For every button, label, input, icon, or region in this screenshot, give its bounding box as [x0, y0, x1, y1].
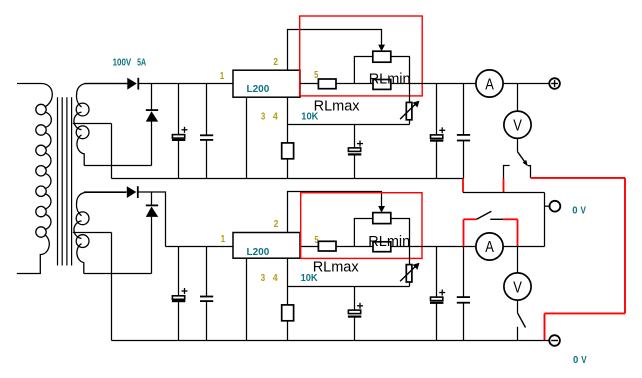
wire S2 center tap — [73, 232, 112, 234]
RLmax pot arrow — [400, 101, 419, 120]
wire RLmin left leg — [354, 57, 372, 84]
transformer T1 secondary winding S1 — [74, 84, 127, 166]
wire pin4 node to RLmax — [288, 124, 410, 126]
wire RLmin to output node — [391, 83, 410, 85]
svg-text:2: 2 — [274, 219, 279, 230]
potentiometer RLmin2 fixed element — [373, 242, 391, 252]
switch SW1 right contact — [528, 166, 531, 178]
wire ammeter 2 to corner — [503, 246, 544, 248]
svg-text:100V: 100V — [113, 57, 132, 68]
capacitor C7 wires — [206, 247, 208, 341]
svg-text:4: 4 — [273, 112, 278, 123]
potentiometer RLmax element — [406, 102, 412, 119]
wire U2 pin 3 to ground rail — [246, 258, 248, 340]
wire 0V terminal tick — [545, 205, 550, 207]
capacitor C9 — [430, 290, 445, 303]
resistor R2 (pin4 to ground) — [282, 143, 294, 159]
label U2 L200 — [247, 247, 270, 258]
wire red right vertical — [624, 178, 626, 314]
wire mid rail down to bottom output — [544, 193, 546, 247]
switch SW3 bottom contact — [517, 327, 519, 341]
svg-text:5A: 5A — [137, 57, 146, 68]
svg-text:1: 1 — [221, 234, 226, 245]
svg-text:V: V — [581, 355, 587, 366]
svg-text:RLmax: RLmax — [313, 260, 360, 276]
wire S1 bottom to D2 — [84, 121, 151, 165]
svg-text:RLmin: RLmin — [369, 71, 411, 87]
pin 2 label U2 — [274, 219, 279, 230]
wire U2 pin 5 to R3 — [300, 246, 318, 248]
switch SW1 pole wire — [517, 138, 519, 152]
pin 1 label U2 — [221, 234, 226, 245]
svg-text:3: 3 — [261, 273, 266, 284]
voltmeter V1 — [504, 111, 531, 138]
capacitor C3 wires — [354, 125, 356, 179]
svg-text:L200: L200 — [247, 247, 270, 258]
wire U1 pin 3 to ground rail — [246, 97, 248, 178]
svg-text:A: A — [485, 239, 494, 256]
label RLmin — [369, 71, 411, 87]
potentiometer RLmin2 upper element — [373, 213, 391, 224]
wire R2 to ground rail — [287, 159, 289, 179]
diode D4 — [146, 192, 158, 217]
svg-text:10K: 10K — [301, 273, 319, 284]
svg-text:V: V — [513, 279, 522, 296]
RLmin2 pot wiper arrow — [378, 206, 385, 213]
pin 3 label U1 — [261, 112, 266, 123]
label RLmin2 — [368, 234, 410, 250]
transformer T1 secondary winding S2 — [74, 192, 126, 273]
label 0 V top — [572, 205, 586, 216]
ammeter A1 — [476, 70, 503, 97]
label RLmax value 10K — [301, 112, 319, 123]
capacitor C6 wires — [178, 247, 180, 341]
capacitor C5 — [457, 135, 470, 141]
svg-text:A: A — [485, 76, 494, 93]
pin 1 label U1 — [220, 71, 225, 82]
wire U2 pin 4 down — [287, 258, 289, 305]
pin 4 label U1 — [273, 112, 278, 123]
wire U1 pin 2 to RLmin wiper — [288, 30, 382, 71]
capacitor C9 wires — [436, 247, 438, 341]
wire bottom input rail — [166, 246, 234, 248]
wire output node 2 to RLmax2 pot — [409, 247, 411, 265]
op-amp U2 L200 regulator — [233, 233, 300, 259]
wire red SW1 contact to mid rail — [503, 179, 505, 193]
wire red ammeter bypass right — [517, 219, 519, 246]
svg-text:1: 1 — [220, 71, 225, 82]
switch SW3 arm — [518, 313, 526, 328]
capacitor C6 — [172, 288, 188, 301]
resistor R1 (pin5 series) — [318, 79, 336, 89]
switch SW2 contact — [490, 218, 503, 220]
wire top rail D1 to L200 pin 1 — [138, 83, 233, 85]
wire RLmin2 right leg — [391, 219, 410, 247]
svg-text:3: 3 — [261, 112, 266, 123]
capacitor C2 — [200, 135, 213, 140]
wire mid rail (0V) — [463, 192, 545, 194]
wire bottom rail segment S2 to D3 — [84, 191, 127, 193]
wire RLmin2 to output node — [391, 246, 410, 248]
svg-text:4: 4 — [273, 273, 278, 284]
wire RLmin2 left leg — [354, 219, 372, 247]
wire V2 branch — [517, 247, 519, 274]
switch SW1 arm — [518, 152, 528, 167]
pin 2 label U1 — [273, 57, 278, 68]
capacitor C8 — [348, 303, 363, 317]
wire S1 center tap — [73, 123, 112, 125]
wire U2 pin 2 to RLmin2 wiper — [288, 192, 382, 233]
wire R3 to RLmin2 — [336, 246, 373, 248]
capacitor C1 wires — [178, 84, 180, 179]
label RLmax2 — [313, 260, 360, 276]
terminal 0V top — [550, 201, 561, 212]
wire red bottom horizontal — [545, 312, 626, 314]
RLmin pot wiper arrow — [378, 45, 385, 52]
label U1 L200 — [247, 84, 270, 95]
wire red bypass top left — [464, 218, 477, 220]
switch SW2 arm — [477, 211, 492, 219]
pin 5 label U2 — [314, 235, 319, 246]
capacitor C10 wires — [463, 247, 465, 341]
wire top ground rail — [112, 178, 464, 180]
terminal minus output — [549, 335, 560, 346]
wire red ammeter bypass left — [463, 219, 465, 246]
wire RLmin right leg — [391, 57, 410, 84]
capacitor C2 wires — [206, 84, 208, 179]
wire pin4 node 2 to RLmax2 — [288, 286, 410, 288]
capacitor C4 — [430, 127, 445, 140]
diode D3 — [127, 186, 138, 198]
wire S2 bottom to D4 — [84, 217, 152, 274]
potentiometer RLmin fixed element — [373, 80, 391, 90]
label 0 V bottom — [573, 355, 587, 366]
capacitor C1 — [172, 127, 188, 140]
wire R1 to RLmin — [336, 83, 373, 85]
wire red bypass top right — [503, 218, 517, 220]
wire red down to minus terminal — [544, 313, 546, 340]
capacitor C7 — [200, 297, 213, 302]
label RLmax2 value 10K — [301, 273, 319, 284]
voltmeter V2 — [504, 273, 531, 300]
highlight box around RLmin2 (red) — [301, 193, 422, 259]
capacitor C3 — [348, 141, 363, 155]
potentiometer RLmin upper element — [373, 51, 391, 62]
transformer T1 primary winding — [17, 84, 53, 274]
capacitor C5 wires — [463, 84, 465, 179]
resistor R4 (pin4 to ground) — [282, 305, 294, 321]
capacitor C8 wires — [354, 287, 356, 341]
wire ammeter to plus terminal — [503, 83, 549, 85]
capacitor C10 — [457, 297, 470, 303]
svg-text:V: V — [581, 205, 587, 216]
svg-text:RLmin: RLmin — [368, 234, 410, 250]
svg-text:RLmax: RLmax — [314, 98, 361, 114]
terminal plus output — [549, 78, 560, 89]
svg-text:2: 2 — [273, 57, 278, 68]
ammeter A2 — [476, 233, 503, 260]
op-amp U1 L200 regulator — [233, 70, 300, 97]
wire top rail segment S1 to D1 — [84, 83, 127, 85]
wire RLmax pot to pin4 wire — [409, 120, 411, 125]
diode D2 — [146, 84, 158, 122]
highlight box around RLmin (red) — [300, 16, 423, 96]
wire U1 pin 4 down — [287, 97, 289, 143]
svg-text:0: 0 — [572, 205, 578, 216]
pin 4 label U2 — [273, 273, 278, 284]
diode D1 — [127, 78, 138, 90]
wire S1 tap down to ground rail — [111, 124, 113, 179]
label RLmax — [314, 98, 361, 114]
wire output rail 2 to ammeter — [410, 246, 477, 248]
resistor R3 (pin5 series) — [318, 241, 336, 251]
svg-text:0: 0 — [573, 355, 579, 366]
wire V1 branch — [517, 84, 519, 112]
wire R4 to ground rail — [287, 321, 289, 341]
wire RLmax2 pot to pin4 wire — [409, 282, 411, 287]
wire S2 tap down to ground rail — [111, 233, 113, 341]
capacitor C4 wires — [436, 84, 438, 179]
wire output node to RLmax pot — [409, 84, 411, 103]
potentiometer RLmax2 element — [406, 265, 412, 282]
label D1 value 100V 5A — [113, 57, 147, 68]
svg-text:10K: 10K — [301, 112, 319, 123]
wire bottom ground rail — [112, 340, 550, 342]
wire U1 pin 5 to R1 — [300, 83, 318, 85]
wire D3 to corner — [138, 192, 166, 247]
wire red jog to mid rail — [462, 179, 464, 193]
transformer T1 core — [58, 97, 72, 265]
pin 5 label U1 — [314, 70, 319, 81]
switch SW3 pole wire — [517, 300, 519, 313]
switch SW1 left contact — [504, 166, 510, 179]
RLmax2 pot arrow — [400, 263, 419, 282]
pin 3 label U2 — [261, 273, 266, 284]
svg-text:L200: L200 — [247, 84, 270, 95]
svg-text:V: V — [513, 118, 522, 135]
wire red SW1 to right side — [531, 177, 626, 179]
wire output rail to ammeter — [410, 83, 477, 85]
